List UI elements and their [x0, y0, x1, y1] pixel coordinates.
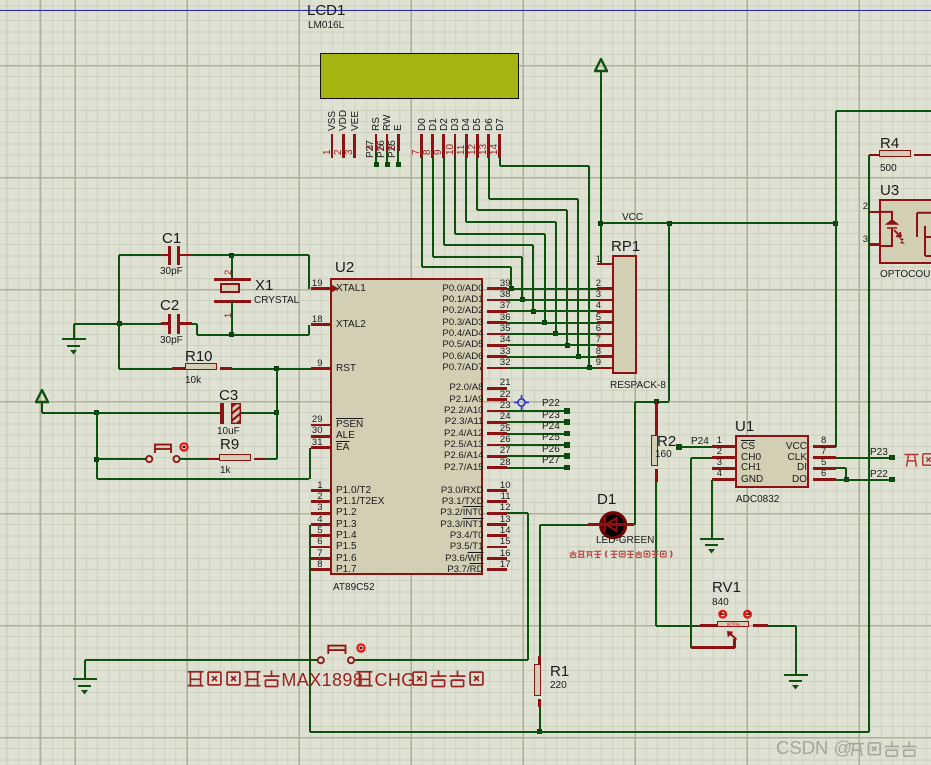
LCD pin name E	[394, 124, 405, 131]
U2 pin 33 (P0.6/AD6) stub	[487, 355, 507, 358]
U2 pin 13 (P3.3/INT1) stub	[487, 523, 507, 526]
power terminal arrow (VCC top)	[594, 58, 608, 73]
U2 pin 15 (P3.5/T1) stub	[487, 546, 507, 549]
wire P26 net stub	[507, 455, 565, 457]
net label P26	[542, 445, 560, 456]
LCD pin VSS stub	[331, 134, 334, 158]
U1 pin name CH1	[741, 463, 761, 474]
wire D7 horizontal	[500, 165, 590, 167]
wire D1 vertical from LCD	[432, 157, 434, 257]
U2 pin number 21	[491, 378, 511, 388]
wire D6 down to P0.6	[577, 199, 579, 356]
U2 pin number 37	[491, 301, 511, 311]
wire DI jog	[836, 467, 846, 469]
C1 value 30pF	[160, 267, 183, 278]
U2 pin number 10	[491, 481, 511, 491]
net terminal square P23	[564, 419, 570, 425]
U2 pin 12 (P3.2/INT0) stub	[487, 512, 507, 515]
LCD pin name VSS	[328, 111, 339, 131]
U2 pin 37 (P0.2/AD2) stub	[487, 310, 507, 313]
C3 value 10uF	[217, 427, 240, 438]
wire D1 corner down to R1	[539, 525, 541, 657]
U2 pin name P2.0/A8	[414, 383, 484, 393]
RP1 pin number 5	[587, 313, 601, 323]
junction X1/XTAL2	[229, 332, 234, 337]
RP1 pin number 1	[587, 255, 601, 265]
R1 value 220	[550, 681, 567, 692]
resistor R2	[655, 402, 658, 436]
wire P0.6 row	[507, 356, 597, 358]
U2 pin name P0.5/AD5	[414, 340, 484, 350]
U2 pin 6 (P1.5) stub	[311, 546, 330, 549]
RV1 wiper lead	[733, 639, 736, 648]
net terminal square P26	[385, 162, 390, 167]
wire P24 net stub	[507, 433, 565, 435]
net terminal square P27	[374, 162, 379, 167]
wire D1 column	[634, 402, 636, 525]
U1 pin number 7	[821, 447, 826, 457]
LCD pin name RW	[383, 115, 394, 131]
junction D5/P0.5	[565, 343, 570, 348]
U2 value AT89C52	[333, 583, 375, 594]
U2 pin name EA	[336, 443, 349, 454]
wire RST row right	[232, 368, 311, 370]
U1 pin 5 (DI) stub	[813, 467, 837, 470]
U2 pin name P3.5/T1	[414, 542, 484, 552]
wire R1 to bottom rail	[539, 707, 541, 732]
U2 pin name P2.2/A10	[414, 406, 484, 416]
RP1 pin number 6	[587, 324, 601, 334]
U1 pin number 1	[708, 436, 722, 446]
wire CH0 from RV1 wiper	[691, 457, 713, 459]
U2 pin name P1.6	[336, 554, 357, 565]
U2 pin 38 (P0.1/AD1) stub	[487, 299, 507, 302]
U2 pin number 23	[491, 401, 511, 411]
U2 pin number 5	[293, 526, 323, 536]
U1 label	[735, 419, 754, 435]
wire top right horizontal	[836, 110, 931, 112]
wire P25 net stub	[507, 444, 565, 446]
U2 pin number 3	[293, 503, 323, 513]
wire XTAL2 rise	[308, 325, 310, 335]
U2 pin 23 (P2.2/A10) stub	[487, 410, 507, 413]
net label P25	[388, 140, 399, 158]
wire XTAL1 drop	[308, 255, 310, 289]
RV1 wiper arrow	[726, 631, 738, 640]
wire P0.4 row	[507, 333, 597, 335]
net label P23	[542, 411, 560, 422]
LCD pin name D4	[462, 118, 473, 131]
U2 pin 25 (P2.4/A12) stub	[487, 432, 507, 435]
cursor crosshair icon	[514, 395, 529, 410]
net terminal square P22	[889, 477, 895, 483]
wire D1 down to P0.1	[521, 257, 523, 300]
capacitor C2	[168, 314, 171, 334]
U2 pin name P2.5/A13	[414, 440, 484, 450]
U2 pin number 19	[293, 279, 323, 289]
LCD pin number 10	[446, 144, 457, 155]
wire P3.2 net stub	[507, 512, 528, 514]
RP1 pin 9 stub	[597, 367, 612, 370]
net label VCC	[622, 213, 643, 224]
LCD pin name D3	[451, 118, 462, 131]
R9 label	[220, 437, 239, 453]
net label P24	[542, 422, 560, 433]
resistor R10	[185, 363, 217, 370]
LCD pin number 12	[468, 144, 479, 155]
RP1 pin number 7	[587, 335, 601, 345]
junction left rail / C2 row	[117, 321, 122, 326]
U2 pin name P3.0/RXD	[414, 486, 484, 496]
wire D0 vertical from LCD	[421, 157, 423, 267]
wire X1 pin1 vertical	[231, 302, 233, 335]
LCD pin number 13	[479, 144, 490, 155]
R10 label	[185, 349, 213, 365]
X1 pin number 2	[224, 270, 234, 275]
net label P27	[366, 140, 377, 158]
U2 pin name ALE	[336, 431, 355, 442]
wire R9 to column	[265, 458, 277, 460]
U1 pin name CLK	[777, 453, 807, 464]
R9-RST column wire	[276, 369, 278, 460]
C1 label	[162, 231, 181, 247]
wire EA link row	[97, 478, 310, 480]
wire RV1 right to ground	[768, 625, 796, 627]
RP1 pin 5 stub	[597, 321, 612, 324]
wire D2 down to P0.2	[532, 245, 534, 311]
junction D0/P0.0	[509, 286, 514, 291]
U2 pin 26 (P2.5/A13) stub	[487, 444, 507, 447]
U2 pin number 7	[293, 549, 323, 559]
U2 pin name PSEN	[336, 420, 363, 431]
wire R2 column to RV1	[656, 625, 700, 627]
U2 pin name P2.6/A14	[414, 451, 484, 461]
LCD LM016L display body	[320, 53, 519, 99]
U2 pin number 34	[491, 335, 511, 345]
U1 pin number 2	[708, 447, 722, 457]
junction D7/P0.7	[587, 365, 592, 370]
annotation 供给 (clipped)	[903, 451, 931, 468]
RV1 label	[712, 580, 741, 596]
LCD pin number 2	[334, 149, 345, 155]
C2 value 30pF	[160, 336, 183, 347]
crystal X1	[220, 283, 240, 294]
U1 pin 4 (GND) stub	[712, 478, 735, 481]
RP1 pin number 9	[587, 358, 601, 368]
X1 value CRYSTAL	[254, 296, 299, 307]
wire C2 row left segment	[119, 323, 161, 325]
LCD pin RS stub	[375, 134, 378, 151]
wire CLK to P23	[836, 457, 890, 459]
U2 pin name P1.3	[336, 520, 357, 531]
wire RST row left	[119, 368, 172, 370]
D1 value LED-GREEN	[596, 536, 654, 547]
LCD pin name D0	[418, 118, 429, 131]
wire DO to P22	[836, 479, 890, 481]
led D1 (LED-GREEN)	[599, 511, 627, 539]
wire C3 row right	[241, 412, 276, 414]
U2 pin name P1.4	[336, 531, 357, 542]
RP1 pin number 2	[587, 279, 601, 289]
wire C1 row left segment	[119, 254, 161, 256]
C2 label	[160, 298, 179, 314]
net label P22	[542, 399, 560, 410]
U3 internal LED symbol	[879, 200, 931, 266]
LCD pin D2 stub	[442, 134, 445, 158]
U2 pin 24 (P2.3/A11) stub	[487, 421, 507, 424]
X1 label	[255, 278, 273, 294]
mcu U2 body	[330, 278, 484, 575]
U2 pin name P0.3/AD3	[414, 318, 484, 328]
net label P25	[542, 433, 560, 444]
LCD pin name D7	[496, 118, 507, 131]
RP1 pin 4 stub	[597, 310, 612, 313]
wire P25 terminal	[397, 151, 399, 164]
LCD pin name VDD	[339, 110, 350, 131]
junction VCC/right column	[833, 221, 838, 226]
LCD pin number 14	[490, 144, 501, 155]
resistor R4	[869, 154, 879, 157]
wire D3 horizontal	[455, 233, 545, 235]
RP1 pin 6 stub	[597, 333, 612, 336]
D1 label	[597, 492, 616, 508]
wire D3 down to P0.3	[544, 234, 546, 322]
optocoupler U3 body	[879, 199, 931, 264]
wire top right drop	[835, 111, 837, 224]
wire P27 net stub	[507, 467, 565, 469]
U2 pin name P1.5	[336, 542, 357, 553]
LCD pin D4 stub	[465, 134, 468, 158]
RP1 pin 3 stub	[597, 299, 612, 302]
U2 pin number 26	[491, 435, 511, 445]
LCD pin number 4	[366, 144, 377, 150]
RV1 value 840	[712, 598, 729, 609]
left rail	[118, 255, 120, 369]
net terminal square P23	[889, 455, 895, 461]
junction C3/R9 column	[274, 410, 279, 415]
U2 pin 34 (P0.5/AD5) stub	[487, 344, 507, 347]
net terminal square P25	[564, 442, 570, 448]
LCD pin D3 stub	[454, 134, 457, 158]
LCD pin number 9	[434, 149, 445, 155]
LCD pin number 5	[377, 144, 388, 150]
LCD pin number 1	[323, 149, 334, 155]
wire D5 vertical from LCD	[476, 157, 478, 210]
U2 pin name P3.4/T0	[414, 531, 484, 541]
U2 pin number 32	[491, 358, 511, 368]
RV1 82% text	[727, 623, 740, 630]
wire D6 horizontal	[489, 198, 579, 200]
net terminal square P27	[564, 465, 570, 471]
C3 label	[219, 388, 238, 404]
U1 pin 7 (CLK) stub	[813, 456, 837, 459]
U1 pin number 5	[821, 458, 826, 468]
U2 pin 5 (P1.4) stub	[311, 534, 330, 537]
U2 pin 3 (P1.2) stub	[311, 512, 330, 515]
annotation 充满指示（也可以用蜂鸣器）	[569, 550, 676, 558]
U2 pin 16 (P3.6/WR) stub	[487, 557, 507, 560]
U2 pin number 13	[491, 515, 511, 525]
U1 pin 3 (CH1) stub	[712, 467, 735, 470]
U2 pin 8 (P1.7) stub	[311, 568, 330, 571]
U2 pin name P1.7	[336, 565, 357, 576]
junction R2 top	[654, 399, 659, 404]
U2 pin number 31	[293, 438, 323, 448]
junction D4/P0.4	[553, 331, 558, 336]
R9 value 1k	[220, 466, 231, 477]
U2 pin number 35	[491, 324, 511, 334]
net terminal square P24	[676, 444, 682, 450]
U3 value OPTOCOUPLER	[880, 270, 931, 281]
U2 pin 4 (P1.3) stub	[311, 523, 330, 526]
U2 pin 10 (P3.0/RXD) stub	[487, 489, 507, 492]
net terminal square P22	[564, 408, 570, 414]
U2 pin number 8	[293, 560, 323, 570]
U2 pin number 29	[293, 415, 323, 425]
net label P23	[870, 448, 888, 459]
R2 label	[657, 434, 676, 450]
wire U1 GND drop	[711, 480, 713, 539]
U2 pin 21 (P2.0/A8) stub	[487, 387, 507, 390]
LCD pin D1 stub	[431, 134, 434, 158]
R10 value 10k	[185, 376, 201, 387]
push button (reset)	[144, 440, 192, 464]
U2 pin name P0.7/AD7	[414, 363, 484, 373]
U2 pin 19 (XTAL1) stub	[311, 287, 330, 290]
U2 pin 1 (P1.0/T2) stub	[311, 489, 330, 492]
push button (CHG substitute)	[316, 641, 366, 665]
U2 pin name P2.3/A11	[414, 417, 484, 427]
wire D2 vertical from LCD	[443, 157, 445, 245]
U2 pin number 22	[491, 390, 511, 400]
RP1 label	[611, 239, 640, 255]
wire EA row drop	[309, 448, 311, 480]
U1 pin name DI	[777, 463, 807, 474]
wire button row left	[97, 458, 147, 460]
U2 pin name P1.0/T2	[336, 486, 371, 497]
button2 actuator red dot	[356, 643, 366, 653]
wire C3 row left	[42, 412, 220, 414]
LCD pin name D6	[485, 118, 496, 131]
wire P23 net stub	[507, 421, 565, 423]
U1 pin 1 (CS) stub	[712, 445, 735, 448]
wire D7 vertical from LCD	[499, 157, 501, 166]
wire P0.7 row	[507, 367, 597, 369]
capacitor C1	[168, 246, 171, 266]
wire C1 row right segment	[192, 254, 309, 256]
RP1 pin 2 stub	[597, 287, 612, 290]
U1 pin name GND	[741, 475, 763, 486]
ground (oscillator)	[73, 324, 75, 339]
LCD pin name D5	[473, 118, 484, 131]
U2 pin number 15	[491, 537, 511, 547]
junction VCC/arrow column	[598, 221, 603, 226]
U2 pin name P2.1/A9	[414, 395, 484, 405]
junction C1/X1	[229, 253, 234, 258]
U1 pin number 4	[708, 469, 722, 479]
LCD pin D7 stub	[498, 134, 501, 158]
U2 pin number 4	[293, 515, 323, 525]
U2 pin number 25	[491, 424, 511, 434]
power terminal arrow (reset)	[35, 389, 49, 404]
bottom rail wire	[310, 731, 870, 733]
net terminal square P25	[396, 162, 401, 167]
wire left column (P1.3 to rail)	[309, 525, 311, 732]
wire P0.3 row	[507, 322, 597, 324]
resistor R1	[538, 656, 541, 664]
R2 value 160	[655, 450, 672, 461]
net label P27	[542, 456, 560, 467]
U1 pin name CS	[741, 442, 755, 453]
U2 pin name P3.6/WR	[414, 554, 484, 564]
U2 pin number 6	[293, 537, 323, 547]
capacitor C3 (electrolytic)	[220, 403, 224, 424]
net label P26	[377, 140, 388, 158]
U2 pin name P0.0/AD0	[414, 284, 484, 294]
U2 pin number 39	[491, 279, 511, 289]
ground (U1)	[700, 538, 724, 540]
U2 pin 30 (ALE) stub	[311, 435, 330, 438]
junction D1/P0.1	[520, 297, 525, 302]
U2 pin 2 (P1.1/T2EX) stub	[311, 500, 330, 503]
U2 pin 9 (RST) stub	[311, 367, 330, 370]
RP1 pin number 4	[587, 301, 601, 311]
U2 pin number 33	[491, 347, 511, 357]
LCD pin number 3	[345, 149, 356, 155]
U2 pin 22 (P2.1/A9) stub	[487, 398, 507, 401]
X1 pin number 1	[224, 313, 234, 318]
U2 pin name P1.2	[336, 508, 357, 519]
U1 pin number 6	[821, 469, 826, 479]
RP1 pin 8 stub	[597, 355, 612, 358]
resistor R9	[219, 454, 251, 461]
LCD pin D0 stub	[420, 134, 423, 158]
wire VCC drop to R2/D1	[668, 223, 670, 401]
wire P27 terminal	[375, 151, 377, 164]
U1 pin 6 (DO) stub	[813, 478, 837, 481]
U2 pin number 12	[491, 503, 511, 513]
watermark CSDN	[776, 738, 852, 757]
wire R4/U3 column	[868, 155, 870, 732]
junction RST/R9 column	[274, 366, 279, 371]
junction VCC/R2 column	[667, 221, 672, 226]
wire D4 down to P0.4	[555, 222, 557, 334]
U2 pin 27 (P2.6/A14) stub	[487, 455, 507, 458]
LCD pin VDD stub	[342, 134, 345, 158]
U1 pin 8 (VCC) stub	[813, 445, 837, 448]
U1 value ADC0832	[736, 495, 779, 506]
U2 pin number 36	[491, 313, 511, 323]
wire ground to button2	[85, 659, 318, 661]
net label P24	[691, 437, 709, 448]
LCD pin name VEE	[351, 111, 362, 131]
LCD pin RW stub	[386, 134, 389, 151]
wire D4 vertical from LCD	[465, 157, 467, 222]
wire R2/D1 link	[635, 401, 670, 403]
U2 pin name RST	[336, 364, 356, 375]
LCD pin E stub	[397, 134, 400, 151]
junction D2/P0.2	[531, 309, 536, 314]
U1 pin 2 (CH0) stub	[712, 456, 735, 459]
U2 pin number 14	[491, 526, 511, 536]
U2 pin 35 (P0.4/AD4) stub	[487, 333, 507, 336]
U3 pin 2 stub	[869, 211, 880, 214]
U2 pin number 1	[293, 481, 323, 491]
R4 value 500	[880, 164, 897, 175]
U1 pin name CH0	[741, 453, 761, 464]
wire D1 horizontal	[433, 256, 523, 258]
U2 pin name P0.2/AD2	[414, 306, 484, 316]
